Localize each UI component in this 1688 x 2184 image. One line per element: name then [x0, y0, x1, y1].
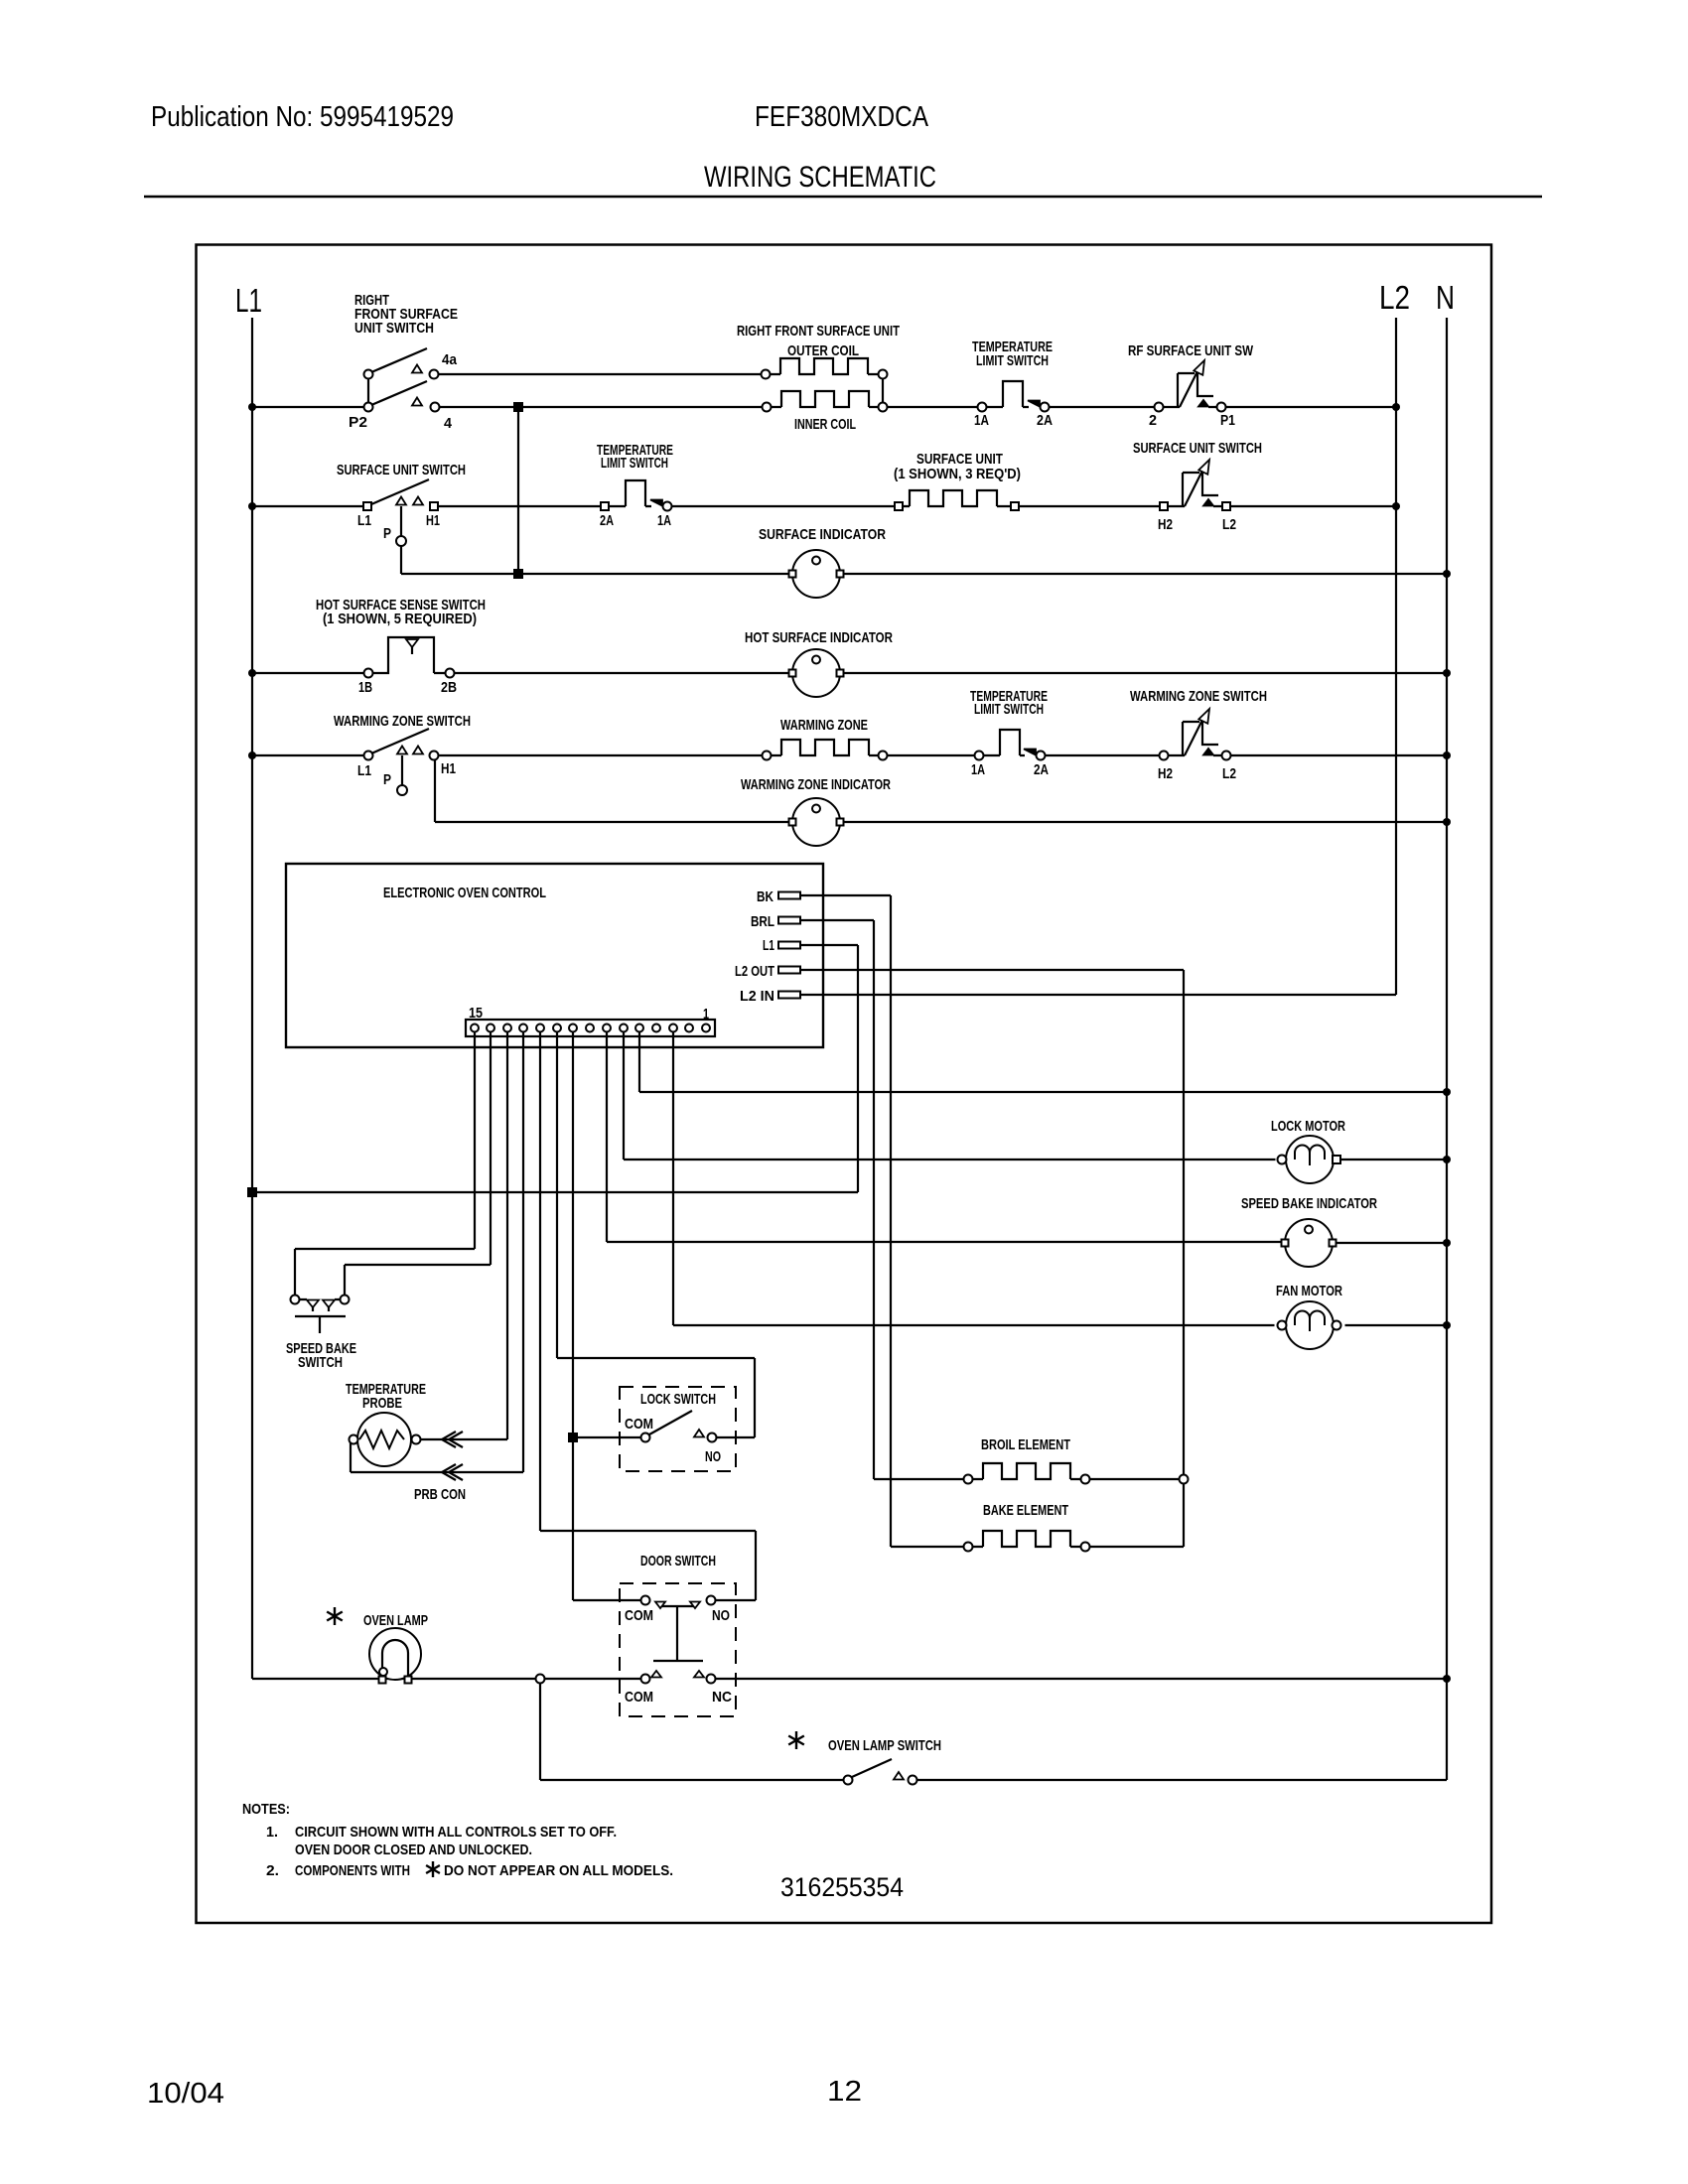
svg-text:1A: 1A — [971, 761, 985, 778]
svg-text:SURFACE UNIT SWITCH: SURFACE UNIT SWITCH — [337, 462, 466, 478]
svg-text:INNER COIL: INNER COIL — [794, 416, 856, 433]
svg-text:FAN MOTOR: FAN MOTOR — [1276, 1283, 1342, 1299]
svg-text:Publication No: 5995419529: Publication No: 5995419529 — [151, 101, 454, 133]
svg-text:L1: L1 — [763, 937, 774, 954]
svg-text:LIMIT SWITCH: LIMIT SWITCH — [974, 701, 1044, 718]
svg-text:WARMING ZONE: WARMING ZONE — [780, 717, 868, 734]
svg-text:L2 OUT: L2 OUT — [735, 963, 774, 980]
svg-text:OVEN LAMP SWITCH: OVEN LAMP SWITCH — [828, 1737, 941, 1754]
svg-text:P: P — [383, 771, 391, 788]
svg-text:DO NOT APPEAR ON ALL MODELS.: DO NOT APPEAR ON ALL MODELS. — [444, 1862, 673, 1879]
svg-text:WARMING ZONE SWITCH: WARMING ZONE SWITCH — [1130, 688, 1267, 705]
svg-text:2.: 2. — [266, 1862, 279, 1879]
svg-text:SURFACE UNIT SWITCH: SURFACE UNIT SWITCH — [1133, 440, 1262, 457]
svg-text:2A: 2A — [1034, 761, 1049, 778]
svg-text:OVEN DOOR CLOSED AND UNLOCKED.: OVEN DOOR CLOSED AND UNLOCKED. — [295, 1842, 532, 1858]
svg-text:4a: 4a — [442, 351, 458, 368]
svg-text:RF SURFACE UNIT SW: RF SURFACE UNIT SW — [1128, 342, 1254, 359]
svg-text:WARMING ZONE SWITCH: WARMING ZONE SWITCH — [334, 713, 471, 730]
svg-text:L1: L1 — [357, 512, 371, 529]
svg-text:1: 1 — [703, 1006, 709, 1023]
svg-text:L2: L2 — [1379, 279, 1410, 316]
svg-text:10/04: 10/04 — [147, 2078, 224, 2110]
svg-text:HOT SURFACE INDICATOR: HOT SURFACE INDICATOR — [745, 629, 893, 646]
svg-text:COM: COM — [625, 1416, 653, 1433]
svg-text:RIGHT FRONT SURFACE UNIT: RIGHT FRONT SURFACE UNIT — [737, 323, 900, 340]
svg-text:H1: H1 — [426, 512, 440, 529]
svg-text:H2: H2 — [1158, 765, 1173, 782]
svg-text:(1 SHOWN, 5 REQUIRED): (1 SHOWN, 5 REQUIRED) — [323, 611, 477, 627]
svg-text:L2: L2 — [1222, 765, 1236, 782]
svg-text:ELECTRONIC OVEN CONTROL: ELECTRONIC OVEN CONTROL — [383, 885, 546, 901]
svg-text:H2: H2 — [1158, 516, 1173, 533]
svg-text:OUTER COIL: OUTER COIL — [787, 342, 859, 359]
svg-text:L2: L2 — [1222, 516, 1236, 533]
svg-text:LIMIT SWITCH: LIMIT SWITCH — [601, 455, 668, 472]
svg-text:FEF380MXDCA: FEF380MXDCA — [755, 101, 929, 133]
svg-text:1B: 1B — [358, 679, 372, 696]
svg-text:(1 SHOWN, 3 REQ'D): (1 SHOWN, 3 REQ'D) — [894, 466, 1021, 482]
svg-text:SURFACE INDICATOR: SURFACE INDICATOR — [759, 526, 886, 543]
svg-text:COM: COM — [625, 1607, 653, 1624]
svg-text:1A: 1A — [974, 412, 989, 429]
svg-text:316255354: 316255354 — [780, 1872, 904, 1902]
svg-text:LOCK MOTOR: LOCK MOTOR — [1271, 1118, 1345, 1135]
svg-text:P1: P1 — [1220, 412, 1235, 429]
svg-text:UNIT SWITCH: UNIT SWITCH — [354, 320, 434, 337]
svg-text:2: 2 — [1149, 412, 1157, 429]
svg-text:CIRCUIT SHOWN WITH ALL CONTROL: CIRCUIT SHOWN WITH ALL CONTROLS SET TO O… — [295, 1824, 617, 1841]
svg-text:L1: L1 — [357, 762, 371, 779]
svg-text:WIRING SCHEMATIC: WIRING SCHEMATIC — [704, 161, 936, 194]
svg-text:NO: NO — [712, 1607, 730, 1624]
svg-text:L2 IN: L2 IN — [740, 988, 774, 1005]
svg-text:WARMING ZONE INDICATOR: WARMING ZONE INDICATOR — [741, 776, 891, 793]
svg-text:4: 4 — [444, 415, 453, 432]
svg-text:P: P — [383, 525, 391, 542]
svg-text:OVEN LAMP: OVEN LAMP — [363, 1612, 428, 1629]
svg-text:NO: NO — [705, 1448, 721, 1465]
svg-text:LOCK SWITCH: LOCK SWITCH — [640, 1391, 716, 1408]
svg-text:SPEED BAKE INDICATOR: SPEED BAKE INDICATOR — [1241, 1195, 1377, 1212]
svg-text:BROIL ELEMENT: BROIL ELEMENT — [981, 1436, 1070, 1453]
svg-text:1.: 1. — [266, 1824, 278, 1841]
svg-text:L1: L1 — [235, 282, 262, 319]
svg-text:2A: 2A — [1037, 412, 1053, 429]
svg-text:P2: P2 — [349, 414, 367, 431]
svg-text:BAKE ELEMENT: BAKE ELEMENT — [983, 1502, 1068, 1519]
svg-text:LIMIT SWITCH: LIMIT SWITCH — [976, 352, 1049, 369]
svg-text:H1: H1 — [441, 760, 456, 777]
svg-text:NC: NC — [712, 1689, 732, 1706]
svg-text:PRB CON: PRB CON — [414, 1486, 466, 1503]
svg-text:N: N — [1436, 279, 1455, 316]
svg-text:BRL: BRL — [751, 913, 774, 930]
svg-text:1A: 1A — [657, 512, 671, 529]
svg-text:DOOR SWITCH: DOOR SWITCH — [640, 1553, 716, 1570]
svg-text:12: 12 — [827, 2076, 862, 2108]
svg-text:BK: BK — [757, 888, 774, 905]
svg-text:NOTES:: NOTES: — [242, 1801, 290, 1818]
svg-text:COM: COM — [625, 1689, 653, 1706]
svg-text:2A: 2A — [600, 512, 614, 529]
svg-text:SWITCH: SWITCH — [298, 1354, 343, 1371]
svg-text:PROBE: PROBE — [362, 1395, 402, 1412]
svg-text:COMPONENTS WITH: COMPONENTS WITH — [295, 1862, 410, 1879]
svg-text:15: 15 — [469, 1005, 483, 1022]
svg-text:2B: 2B — [441, 679, 457, 696]
